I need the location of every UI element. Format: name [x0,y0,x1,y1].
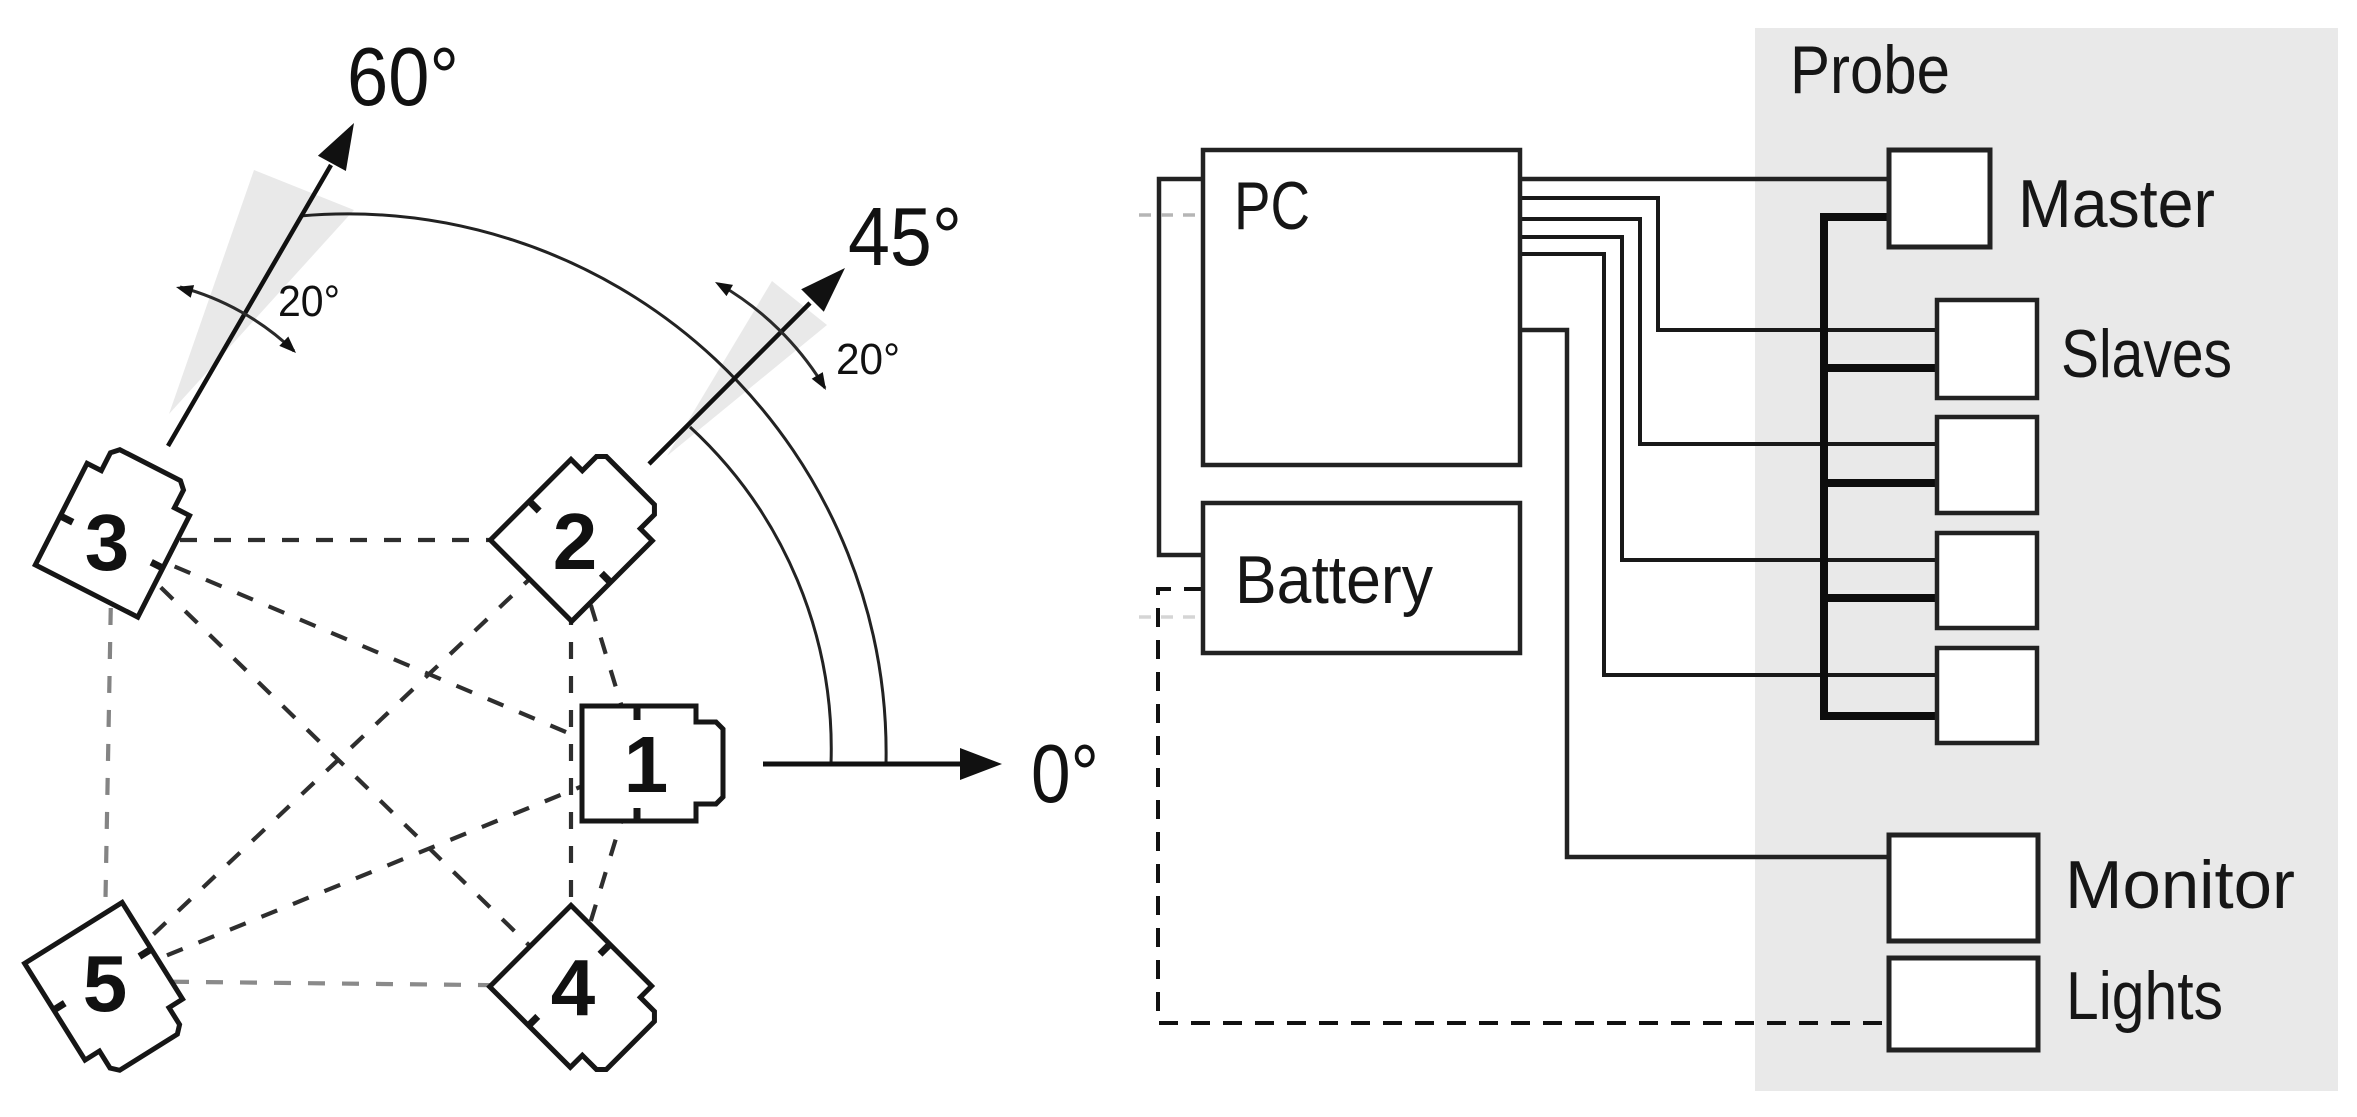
svg-text:2: 2 [553,497,598,586]
svg-text:Probe: Probe [1790,32,1950,108]
svg-text:PC: PC [1234,168,1310,244]
svg-text:Battery: Battery [1235,542,1433,618]
svg-text:1: 1 [624,720,669,809]
svg-text:0°: 0° [1031,727,1099,820]
svg-text:20°: 20° [278,277,340,326]
svg-text:Lights: Lights [2066,958,2223,1034]
svg-text:4: 4 [551,943,596,1032]
svg-text:Slaves: Slaves [2061,316,2232,392]
svg-text:20°: 20° [836,335,900,384]
svg-text:3: 3 [85,498,130,587]
svg-text:45°: 45° [848,190,962,283]
svg-text:Monitor: Monitor [2065,847,2295,923]
svg-text:5: 5 [83,939,128,1028]
svg-text:60°: 60° [347,30,459,123]
svg-text:Master: Master [2018,166,2215,242]
